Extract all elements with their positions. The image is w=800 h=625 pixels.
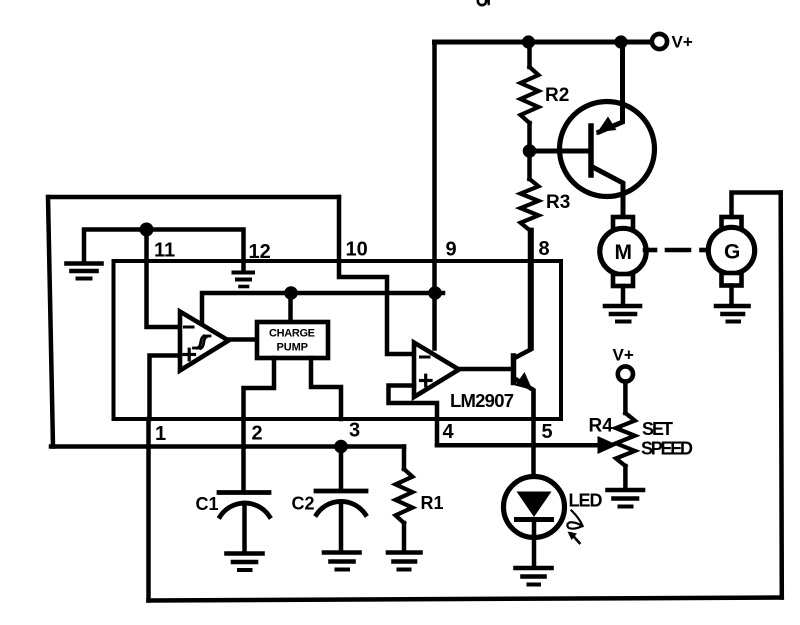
generator G body	[708, 227, 754, 273]
wire V+ rail down to pin 9 and op-amps supply	[432, 42, 437, 349]
svg-text:5: 5	[542, 421, 553, 443]
ground under R1	[388, 553, 421, 570]
wire pin 4 wiper line to R4	[437, 443, 600, 448]
junction node on rail at R2	[522, 35, 535, 48]
wire pin 11 to op-amp U1 inverting input	[147, 230, 181, 328]
motor M ground lead	[621, 286, 626, 304]
generator G bottom terminal	[722, 273, 742, 286]
stray glyph g (cropped caption)	[478, 0, 486, 5]
wire charge pump to pin 3	[311, 358, 341, 419]
ground under LED	[516, 568, 552, 585]
svg-text:12: 12	[249, 241, 271, 263]
resistor R3	[527, 157, 532, 179]
C2 flat plate	[316, 489, 366, 494]
LED cathode lead	[532, 520, 537, 567]
ground at far left	[67, 264, 102, 279]
capacitor C1 top lead (pin 2)	[241, 419, 246, 491]
svg-text:PUMP: PUMP	[277, 342, 309, 354]
U1 hysteresis symbol	[194, 336, 211, 349]
wire pin 11/12 ground bus	[84, 230, 244, 272]
wiper arrowhead	[598, 436, 618, 454]
svg-text:C1: C1	[196, 494, 219, 514]
svg-text:R1: R1	[421, 493, 444, 513]
C1 curved plate	[220, 503, 270, 516]
node pin 11 junction	[140, 223, 154, 237]
wire pin 1 bottom bus	[51, 444, 404, 449]
motor M bottom terminal	[613, 274, 633, 286]
svg-text:V+: V+	[672, 33, 693, 52]
LED circle	[504, 477, 565, 538]
svg-text:2: 2	[252, 423, 263, 445]
Q2 emitter arrow (NPN)	[515, 372, 533, 390]
C1 bottom lead	[242, 503, 247, 552]
wire pin 8 (R3 down to internal collector)	[528, 230, 533, 349]
svg-text:4: 4	[443, 421, 455, 443]
ground under C1	[227, 554, 263, 571]
capacitor C2 top lead (pin 3)	[339, 447, 344, 490]
Q2 emitter	[515, 379, 534, 420]
svg-text:CHARGE: CHARGE	[269, 328, 315, 340]
generator G top terminal	[722, 217, 742, 229]
junction node on rail at Q1 emitter	[614, 35, 627, 48]
svg-text:G: G	[724, 241, 740, 264]
U2 plus sign	[421, 375, 432, 386]
ground under G	[716, 306, 749, 322]
Q1 base bar	[588, 126, 594, 175]
wire top-left loop horizontal	[49, 195, 339, 200]
Q2 collector	[515, 230, 532, 358]
wire right rail down	[781, 193, 782, 598]
resistor R1 drop from bus	[402, 447, 407, 470]
node pin3/C2/R1 junction	[334, 440, 348, 454]
charge pump box	[257, 322, 328, 358]
svg-text:R4: R4	[589, 416, 614, 437]
svg-text:SET: SET	[642, 419, 673, 439]
motor M body	[600, 228, 646, 274]
Q1 emitter arrow (PNP)	[596, 117, 617, 136]
resistor R2	[527, 42, 532, 67]
node R2/R3/base junction	[523, 144, 537, 158]
U2 minus sign	[421, 356, 430, 359]
wire pin 5 down to LED	[531, 419, 536, 478]
svg-text:M: M	[615, 241, 633, 264]
node supply/pin 9	[428, 286, 442, 300]
wire pin 1 down through bus to bottom rail	[146, 419, 151, 601]
wire U2 + input hook to pin 4	[389, 386, 438, 446]
terminal V+ above R4	[618, 366, 633, 381]
svg-text:11: 11	[154, 240, 175, 262]
Q1 base wire	[536, 149, 588, 154]
wire V+ top rail	[435, 40, 652, 45]
U1 plus sign	[184, 349, 195, 360]
wire pin 10 path to op-amp U2 inverting input	[339, 197, 414, 354]
LED cathode bar	[517, 517, 552, 522]
svg-text:LM2907: LM2907	[450, 390, 514, 411]
C2 curved plate	[317, 501, 366, 514]
wire charge pump top pin	[288, 293, 293, 322]
potentiometer R4	[623, 382, 628, 414]
ground under C2	[324, 553, 360, 570]
wire G to right rail	[732, 193, 781, 218]
svg-text:9: 9	[446, 239, 457, 261]
transistor Q2 base bar	[511, 356, 517, 383]
svg-text:C2: C2	[292, 494, 315, 514]
svg-text:3: 3	[349, 420, 360, 442]
LED anode triangle	[517, 492, 552, 518]
ground under R4	[608, 490, 644, 507]
IC LM2907 package outline	[114, 261, 562, 419]
node supply/charge-pump	[284, 286, 298, 300]
wire U1 output to charge pump	[229, 337, 258, 342]
svg-text:V+: V+	[613, 346, 634, 365]
dashed mechanical coupling M to G	[645, 248, 710, 253]
svg-text:R3: R3	[546, 192, 570, 213]
svg-text:1: 1	[155, 423, 166, 445]
svg-text:10: 10	[346, 239, 368, 261]
transistor Q1 (PNP) circle	[560, 102, 655, 197]
svg-text:LED: LED	[569, 491, 603, 511]
ground at pin 12	[234, 273, 254, 287]
wire U2 output to Q2 base	[459, 367, 512, 372]
Q1 emitter	[599, 42, 623, 132]
wire bottom rail	[149, 598, 782, 601]
C2 bottom lead	[339, 502, 344, 552]
ground under M	[605, 306, 640, 322]
wire charge pump to pin 2	[244, 358, 275, 419]
svg-text:R2: R2	[545, 85, 569, 106]
U1 minus sign	[185, 326, 194, 329]
wire pin 1 to op-amp U1 non-inverting input	[150, 356, 181, 420]
svg-text:SPEED: SPEED	[641, 439, 693, 459]
wire outer left vertical	[48, 197, 53, 447]
generator G ground lead	[729, 286, 734, 305]
C1 flat plate	[219, 490, 269, 495]
terminal V+	[652, 34, 667, 49]
op-amp U2 triangle	[414, 343, 459, 398]
LED light squiggle arrow	[567, 511, 582, 544]
Q1 collector	[594, 168, 624, 218]
svg-text:8: 8	[539, 238, 550, 260]
motor M top terminal	[613, 217, 633, 229]
wire internal supply bus	[202, 293, 443, 326]
op-amp U1 (input comparator)	[180, 312, 229, 371]
